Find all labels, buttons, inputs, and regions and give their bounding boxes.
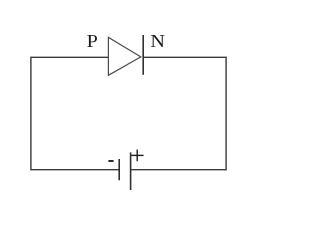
wire bottom-right segment xyxy=(131,169,227,171)
label plus sign xyxy=(131,150,143,162)
svg-text:N: N xyxy=(150,32,165,52)
wire top-right segment xyxy=(143,56,226,58)
wire left segment xyxy=(30,57,32,171)
svg-text:P: P xyxy=(87,32,98,52)
wire top-left segment xyxy=(31,56,109,58)
battery BT1 positive tall bar xyxy=(130,152,132,190)
diode D1 cathode bar xyxy=(142,35,144,75)
wire bottom-left segment xyxy=(31,169,119,171)
label minus sign xyxy=(108,160,113,162)
diode D1 triangle (anode) xyxy=(108,37,140,75)
battery BT1 negative short bar xyxy=(118,159,120,180)
wire right segment xyxy=(225,57,227,171)
